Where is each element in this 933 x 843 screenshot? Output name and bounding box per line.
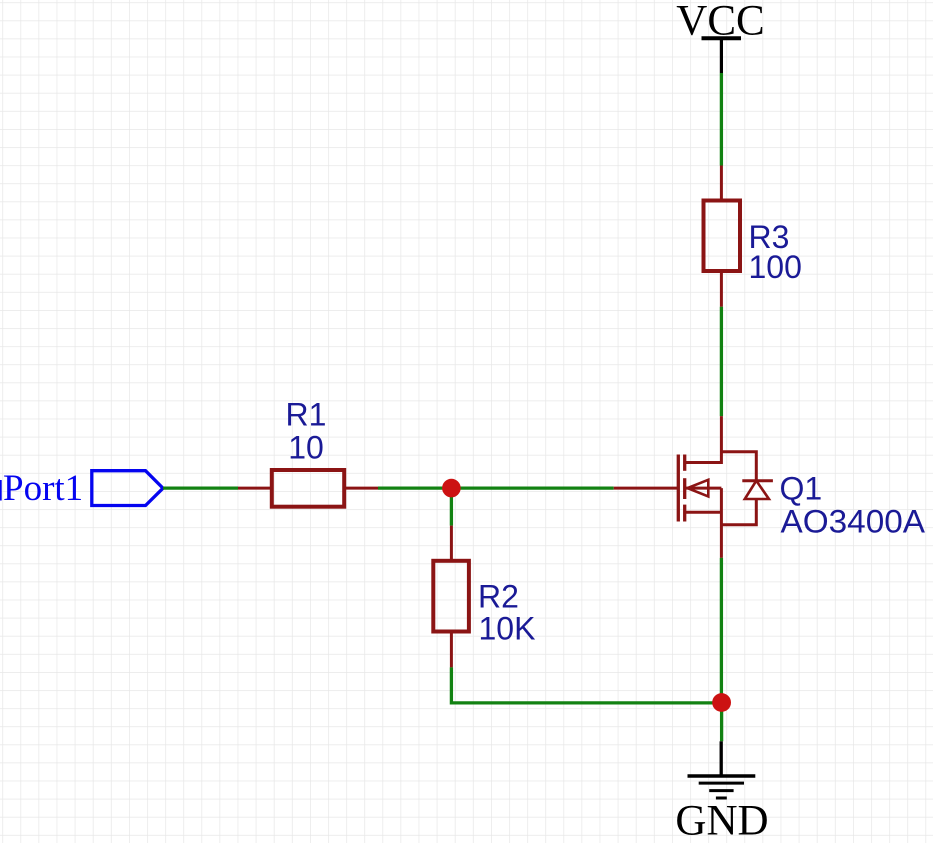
svg-text:100: 100: [749, 249, 802, 285]
body diode branch: [721, 452, 756, 481]
channel segment top: [683, 455, 686, 471]
svg-text:10: 10: [288, 430, 324, 466]
svg-text:AO3400A: AO3400A: [781, 504, 926, 540]
wire VCC to R3: [720, 73, 723, 166]
wire R2 to bottom rail: [451, 667, 721, 703]
bulk arrow head: [688, 480, 709, 497]
source connect: [685, 511, 722, 514]
wire Port1 to R1: [163, 486, 238, 489]
transistor Q1: [614, 416, 773, 558]
resistor R2: [433, 526, 469, 668]
body diode cathode bar: [742, 479, 773, 482]
wire junction to ground: [720, 703, 723, 741]
net label fragment at canvas edge: [0, 480, 2, 501]
wire R1 to Q1 gate: [378, 486, 614, 489]
wire junction down to R2: [450, 488, 453, 525]
source pin: [720, 488, 723, 558]
bulk arrow line: [685, 487, 722, 490]
svg-text:GND: GND: [675, 798, 768, 843]
gate pin: [614, 487, 679, 490]
drain connect: [685, 416, 722, 462]
svg-text:10K: 10K: [479, 611, 536, 647]
svg-text:Q1: Q1: [780, 471, 823, 507]
svg-text:R1: R1: [286, 397, 327, 433]
channel segment middle: [683, 478, 686, 499]
wire R3 to Q1 drain: [720, 307, 723, 416]
port Port1: [92, 471, 163, 506]
power symbol VCC: [702, 38, 742, 73]
body diode triangle: [745, 481, 769, 499]
svg-text:Port1: Port1: [3, 468, 83, 509]
ground symbol GND: [688, 741, 756, 798]
junction node at R2 tap: [442, 479, 461, 498]
resistor R3: [704, 166, 741, 307]
gate bar: [677, 455, 680, 522]
svg-text:R2: R2: [478, 579, 519, 615]
wire Q1 source to bottom rail: [720, 558, 723, 703]
resistor R1: [238, 470, 378, 507]
junction node at ground rail: [712, 693, 731, 712]
channel segment bottom: [683, 505, 686, 522]
